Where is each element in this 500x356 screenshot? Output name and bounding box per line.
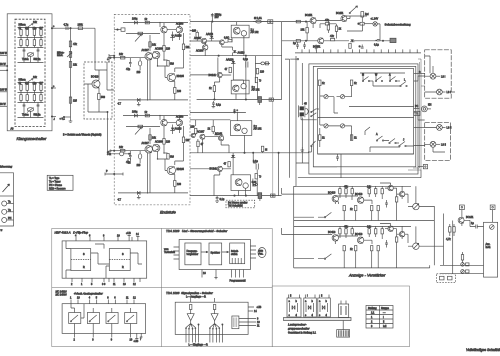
svg-text:Endstufe: Endstufe [160, 210, 177, 215]
switch S1 [362, 74, 373, 82]
resistor R81 [350, 80, 357, 86]
terminal box out1 [268, 20, 273, 24]
wire relay down [347, 24, 363, 32]
svg-text:2k5: 2k5 [137, 164, 142, 167]
resistor R92 [344, 186, 349, 194]
svg-text:B = Betrieb nach Wunsch (Abgle: B = Betrieb nach Wunsch (Abgleich) [63, 134, 102, 137]
svg-text:w: w [1, 229, 3, 232]
capacitor C62 [464, 220, 483, 228]
svg-text:BC413: BC413 [355, 233, 363, 236]
resistor R32 [163, 46, 171, 52]
resistor R76 [327, 21, 329, 33]
trimmer TR1 [324, 95, 328, 99]
wire diff pair ch1 [127, 35, 169, 100]
svg-text:BC413: BC413 [328, 231, 336, 234]
svg-text:L— Ausgänge —R: L— Ausgänge —R [186, 296, 206, 299]
wire bottom rail out4 [190, 195, 282, 196]
capacitor C1 [33, 27, 38, 36]
resistor R62 [208, 126, 215, 131]
svg-text:Anzeige - Verstärker: Anzeige - Verstärker [348, 273, 386, 278]
calibration dashed box [437, 274, 456, 283]
wire switch row top [360, 73, 405, 86]
svg-text:22n: 22n [33, 27, 38, 30]
wire supply rail row2 [294, 225, 411, 227]
switch S6 [389, 139, 396, 144]
connector symbol A [287, 295, 301, 318]
svg-text:3k3: 3k3 [170, 156, 175, 159]
capacitor C43 [374, 39, 380, 46]
wire base row1 [282, 188, 333, 194]
IC4 resistor up1 [190, 305, 192, 310]
note box stereo [226, 200, 255, 208]
IC4 top label [186, 296, 215, 303]
treble pot P1 [19, 21, 38, 28]
svg-text:Tastenfeld: Tastenfeld [164, 251, 176, 254]
IC2 program pins [230, 270, 247, 283]
stub right edge 6 [414, 144, 425, 145]
IC1 power pins [126, 232, 140, 241]
wire top rail tone 2 [18, 82, 44, 84]
wire speaker feed vertical [281, 22, 283, 100]
transistor Q82 [388, 185, 393, 190]
transistor Q88 [399, 232, 404, 237]
connector symbol C [318, 295, 331, 318]
IC4 right pins [239, 306, 262, 328]
svg-text:+ 0,1: + 0,1 [60, 118, 66, 121]
IC4 switch fan 2 [209, 324, 223, 343]
transistor Q63 [210, 166, 223, 171]
resistor R94 [367, 186, 372, 194]
svg-text:Si 1,6A: Si 1,6A [254, 17, 262, 20]
svg-text:1k2: 1k2 [186, 46, 191, 49]
pot feedback P41 [126, 125, 160, 134]
svg-text:TDA 1029 Und - Steuerungsbef: TDA 1029 Und - Steuerungsbefehl - Schalt… [166, 229, 228, 233]
wire input bus vertical [293, 186, 295, 268]
capacitor C42 [315, 45, 318, 51]
svg-text:gruppenschalter: gruppenschalter [288, 327, 311, 331]
svg-text:Vollständiges Schaltbild: Vollständiges Schaltbild [466, 348, 500, 352]
switch S8 [308, 141, 316, 152]
IC2 body [179, 240, 250, 270]
IC2 block 2 [209, 243, 222, 265]
IC4 opamp 2 [211, 310, 218, 324]
svg-text:+UB: +UB [134, 340, 139, 343]
resistor R10 [20, 95, 22, 101]
capacitor C35 elco [233, 109, 238, 113]
diode D61 [231, 153, 235, 160]
resistor R65 [255, 174, 261, 179]
capacitor C34 elco dark [258, 97, 262, 105]
wire lower rail tone 2 [18, 101, 44, 103]
resistor R15 [78, 24, 84, 30]
panel divider vertical [160, 228, 162, 346]
wire upper stage ch1 [160, 23, 179, 40]
svg-text:Klangumschalter: Klangumschalter [17, 136, 47, 141]
trimmer TR10 [461, 263, 469, 267]
svg-text:50k lin: 50k lin [34, 58, 42, 61]
wire down to FET stage [94, 28, 96, 62]
svg-text:560: 560 [101, 96, 106, 99]
terminal box M1 [460, 205, 465, 217]
wire bottom rail out2 [197, 99, 282, 100]
wire bottom rail row2 [294, 267, 430, 269]
wire meter feeds vertical [419, 206, 453, 274]
panel divider horizontal [52, 286, 272, 288]
svg-text:+L 24V: +L 24V [371, 18, 379, 21]
IC3 pins bottom [74, 333, 133, 341]
transistor Q31 [153, 48, 163, 59]
transistor Q43 [176, 116, 184, 126]
wire bottom rail ch2 [118, 186, 188, 193]
head bracket [305, 108, 308, 114]
input stub line 4 [0, 89, 8, 92]
terminal box fuse [358, 38, 396, 42]
capacitor C51 [301, 147, 305, 151]
wire nested to bottom [294, 163, 296, 186]
meter module box [484, 222, 498, 277]
IC4 resistor up2 [213, 305, 215, 310]
resistor R74 [358, 22, 373, 25]
capacitor C8 [37, 103, 40, 109]
switch S10 [294, 212, 332, 218]
transistor Q41 [153, 141, 163, 152]
capacitor C11 [108, 54, 115, 62]
node input terminal plus [107, 150, 114, 154]
diode D30 [170, 32, 182, 42]
resistor R82 [319, 135, 326, 141]
IC1 pins top [75, 235, 132, 241]
svg-text:LS I: LS I [441, 76, 446, 79]
wire bottom tone 2 [18, 109, 44, 118]
svg-text:0,1µ: 0,1µ [374, 44, 379, 47]
resistor R100 [377, 206, 379, 211]
transistor Q80 [328, 192, 338, 202]
svg-text:AC188: AC188 [155, 141, 163, 144]
resistor R44 [182, 137, 190, 143]
trimmer TR2 [340, 95, 344, 99]
svg-text:25V: 25V [215, 16, 220, 19]
resistor R116 [343, 246, 345, 251]
node junction dots ch1 [146, 22, 180, 101]
node output terminal mid [51, 85, 56, 89]
svg-text:LS II: LS II [447, 127, 452, 130]
wire bottom rail row1 [294, 220, 435, 222]
capacitor C44 [359, 45, 364, 49]
wire links protection [307, 22, 336, 41]
svg-text:BC251: BC251 [305, 14, 313, 17]
resistor R52 [225, 67, 232, 72]
resistor R31 [119, 53, 125, 59]
wire long mid 2 [318, 117, 414, 119]
resistor R54 [255, 77, 261, 82]
trimmer Q89 [413, 243, 419, 249]
IC3 switch 3 [106, 313, 118, 324]
wire driver ch2 [164, 126, 184, 181]
svg-text:100 W: 100 W [0, 89, 8, 92]
svg-text:BD135: BD135 [177, 168, 185, 171]
IC1 body [62, 241, 147, 278]
svg-text:47µ: 47µ [126, 68, 131, 71]
svg-text:Tr: Tr [259, 80, 261, 83]
wire supply rail ch1 [123, 22, 188, 24]
svg-text:100k: 100k [78, 24, 84, 27]
resistor R33 [167, 61, 175, 67]
diode D70 [350, 40, 358, 42]
svg-text:AC188: AC188 [196, 50, 204, 53]
diode D52 [226, 59, 236, 67]
resistor R101 [395, 197, 397, 202]
SECTION: loudspeaker switch box [272, 286, 500, 352]
terminal box KH [414, 111, 420, 115]
svg-text:AD 162: AD 162 [252, 89, 261, 92]
switch S2 [375, 74, 383, 82]
resistor R8 [25, 82, 30, 91]
transistor Q70 [305, 14, 316, 24]
IC3 body [62, 304, 146, 334]
power transistors T7 T8 box [231, 175, 256, 191]
capacitor C28 input [114, 28, 125, 31]
fuse box F2 [361, 12, 369, 23]
svg-text:100µ: 100µ [132, 111, 138, 114]
node output terminal low [51, 116, 56, 121]
svg-text:Messung: Messung [0, 165, 13, 169]
terminal box out4 [271, 194, 275, 197]
input stub line 5 [0, 103, 7, 106]
svg-text:Anz.: Anz. [259, 253, 264, 256]
resistor R12 [40, 95, 42, 101]
resistor R75 [296, 20, 306, 23]
resistor R51 [224, 37, 232, 42]
resistor R98 [350, 206, 357, 212]
module box A3 outer [7, 14, 52, 131]
node stub into box [106, 62, 108, 70]
headphone jack KH [422, 104, 432, 112]
capacitor C37 [215, 196, 225, 203]
svg-text:Tr: Tr [259, 176, 261, 179]
switch S3 [389, 74, 400, 82]
svg-text:100 W: 100 W [0, 52, 8, 55]
svg-text:AC187: AC187 [142, 49, 150, 52]
svg-text:BC141: BC141 [466, 216, 474, 219]
transistor Q50 [194, 37, 207, 44]
wire inner bottom row [318, 153, 414, 155]
capacitor C25 [126, 151, 132, 164]
svg-text:R: R [83, 266, 85, 269]
wire output to amp box [99, 70, 114, 90]
IC1 pins bottom [71, 278, 140, 286]
svg-text:KH: KH [428, 104, 432, 107]
svg-text:4,03: 4,03 [252, 181, 257, 184]
svg-text:0,9Ω: 0,9Ω [224, 37, 229, 40]
IC3 pins top [70, 297, 136, 304]
speaker LS3 [437, 125, 452, 131]
pot feedback P31 [126, 32, 160, 41]
loudspeaker switch frame [272, 286, 409, 347]
stub right edge 5 [414, 126, 425, 128]
speaker LS1 [430, 73, 445, 79]
resistor R71 [325, 19, 330, 25]
wire supply rail out1 [190, 21, 282, 23]
IC2 block 1 [185, 243, 201, 265]
truth table [366, 306, 393, 329]
resistor R40 [145, 111, 150, 117]
node junction dots ch2 [146, 115, 180, 194]
wire bottom rail ch1 [118, 93, 188, 100]
capacitor C20 [132, 18, 138, 25]
resistor R78 [349, 43, 351, 48]
transistor Q85 [328, 231, 338, 241]
resistor R30 [145, 18, 150, 24]
node head terminal [290, 58, 298, 60]
trimmer TR4 [340, 124, 344, 128]
SECTION: speaker group boxes right [408, 50, 455, 170]
connector stem [342, 321, 344, 330]
IC2 arrows [201, 251, 229, 253]
svg-text:220: 220 [166, 48, 171, 51]
wire mid row out3 [190, 119, 230, 121]
svg-text:AC187: AC187 [197, 131, 205, 134]
connector bus row [295, 49, 421, 53]
wire driver ch1 [164, 33, 184, 88]
SECTION: head/switch nested box [285, 49, 428, 186]
wire mid rail out34 [190, 152, 309, 153]
pot P30 [137, 58, 142, 74]
resistor R2 [25, 27, 30, 36]
svg-text:Instr.: Instr. [486, 246, 492, 249]
treble pot P3 [19, 76, 38, 83]
svg-text:4,7µ: 4,7µ [64, 24, 69, 27]
resistor R42 [163, 139, 171, 145]
power transistors T3 T4 box [231, 80, 260, 94]
terminal box monitor [418, 165, 428, 169]
wire output mid rail out1 [190, 55, 281, 56]
IC3 power pins [134, 333, 143, 343]
svg-text:LS II: LS II [441, 144, 446, 147]
svg-text:AA113: AA113 [175, 35, 183, 38]
transistor Q72 [336, 12, 347, 22]
capacitor C50 [336, 154, 339, 161]
wire FET drain [95, 62, 99, 80]
wire row1 links [335, 183, 416, 221]
wire emitter [88, 88, 107, 112]
legend table box [47, 175, 73, 190]
IC4 switch fan 1 [186, 324, 200, 343]
pot P40 [137, 151, 142, 167]
svg-text:BC251: BC251 [336, 12, 344, 15]
resistor R16 [69, 41, 77, 47]
wire feed upper [282, 21, 311, 23]
shield box mid [313, 66, 416, 166]
svg-text:120: 120 [192, 30, 197, 33]
stub right edge 4 [414, 113, 425, 120]
wire lower rail tone 1 [18, 46, 44, 48]
shield box inner [318, 69, 414, 155]
svg-text:AC188: AC188 [155, 48, 163, 51]
capacitor C21 [126, 58, 132, 71]
resistor R122 [461, 252, 463, 263]
wire emitter down to terminal stub [107, 111, 114, 153]
transistor Q40 [142, 142, 153, 153]
capacitor C61 [385, 240, 388, 248]
svg-text:Rel: Rel [365, 13, 369, 16]
relay contact arm [345, 6, 362, 16]
svg-text:0,1µ: 0,1µ [253, 160, 258, 163]
svg-text:2k2: 2k2 [25, 82, 30, 85]
wire switch row bottom [365, 127, 414, 152]
wire long mid 1 [349, 106, 414, 108]
wire head column left [285, 56, 309, 178]
resistor R118 [371, 246, 373, 251]
svg-text:0,1µ: 0,1µ [216, 104, 221, 107]
svg-text:AC187: AC187 [142, 142, 150, 145]
IC3 switch 1 [69, 313, 81, 324]
IC1 internal wires [66, 241, 142, 278]
IC2 input pins [164, 247, 179, 259]
power transistors T5 T6 box [230, 121, 262, 136]
input stub line 2 [0, 63, 8, 67]
resistor R64 [224, 162, 231, 167]
svg-text:AD 162: AD 162 [251, 31, 260, 34]
bass pot P4 [22, 108, 41, 117]
svg-text:I+II: I+II [383, 325, 387, 328]
IC1 flipflop 2 [109, 249, 130, 271]
wire mid rail tone 1 [18, 35, 44, 39]
jack J3 [2, 217, 14, 223]
IC2 output pins [250, 246, 266, 258]
power transistors T1 T2 box [231, 25, 259, 38]
IC3 switch 4 [125, 313, 137, 324]
tape head TK dark [299, 103, 308, 118]
switch S7 [399, 139, 406, 147]
svg-text:Speicher: Speicher [211, 252, 221, 255]
diode D60 [214, 133, 218, 135]
svg-text:PH: PH [8, 217, 12, 220]
capacitor C33 [212, 101, 222, 108]
wire bottom tone 1 [18, 54, 44, 63]
stub right edge 1 [414, 71, 425, 74]
capacitor C7 [23, 103, 26, 109]
transistor Q71 [313, 38, 324, 49]
wire feed lower [282, 40, 318, 42]
svg-text:AD 162: AD 162 [254, 128, 263, 131]
svg-text:Gruppe: Gruppe [381, 307, 390, 310]
transistor Q62 [215, 133, 224, 141]
resistor R46 collector [149, 135, 157, 140]
svg-text:4k7: 4k7 [39, 27, 44, 30]
resistor R5 [26, 40, 28, 46]
resistor R97 [343, 206, 345, 211]
resistor R34 [182, 44, 190, 50]
SECTION: output stages column [190, 13, 309, 208]
svg-text:1k2: 1k2 [186, 139, 191, 142]
transistor Q87 [388, 226, 393, 231]
speaker group box II [425, 123, 451, 161]
capacitor C30 elco [211, 13, 222, 22]
transistor Q83 [399, 191, 404, 196]
multipin connector dark [337, 330, 350, 338]
resistor R119 [377, 246, 379, 251]
transistor Q81 [355, 193, 364, 203]
svg-text:+UB: +UB [126, 232, 131, 235]
resistor R113 [367, 226, 372, 234]
transistor Q33 [176, 23, 184, 33]
connector D prongs [339, 301, 349, 318]
svg-text:stufen: stufen [231, 253, 238, 256]
diode D50 [206, 33, 214, 38]
IC2 bottom pins [202, 270, 218, 279]
resistor R91 [339, 189, 341, 194]
svg-text:4.T: 4.T [118, 199, 122, 202]
